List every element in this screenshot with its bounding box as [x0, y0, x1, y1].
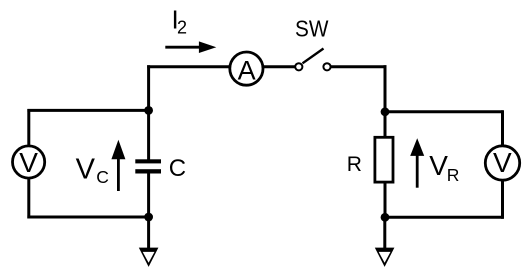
ammeter A: [230, 52, 263, 85]
wire: resistor bottom to junction: [384, 183, 387, 218]
svg-text:R: R: [447, 165, 460, 185]
svg-text:SW: SW: [295, 16, 329, 42]
voltage arrow VC: [111, 140, 125, 191]
node: junction dot left top: [144, 106, 153, 115]
svg-text:A: A: [238, 55, 256, 85]
node: junction dot left bottom: [144, 213, 153, 222]
wire: left loop left vertical lower: [27, 179, 30, 219]
wire: switch to right branch: [331, 65, 387, 68]
wire: capacitor bottom to junction: [147, 173, 150, 218]
capacitor C plates: [135, 159, 161, 173]
wire: right loop right vertical lower: [501, 180, 504, 219]
voltage arrow VR: [410, 138, 424, 188]
wire: left branch vertical to capacitor top: [147, 110, 150, 160]
label VC: [76, 154, 109, 188]
svg-text:C: C: [169, 155, 186, 182]
svg-text:2: 2: [177, 18, 187, 38]
svg-text:C: C: [96, 167, 109, 187]
wire: right junction to resistor top: [384, 112, 387, 137]
node: junction dot right bottom: [381, 213, 390, 222]
svg-text:R: R: [347, 153, 362, 176]
wire: ammeter to switch: [263, 65, 295, 68]
current arrow I2: [165, 41, 216, 53]
switch SW: [295, 49, 330, 71]
wire: left loop left vertical upper: [27, 109, 30, 146]
label I2: [172, 4, 188, 37]
label VR: [429, 150, 459, 185]
wire: left loop bottom horizontal: [27, 216, 148, 219]
wire: right loop top horizontal: [385, 110, 503, 113]
wire: top segment node1 to ammeter: [147, 65, 230, 68]
svg-text:V: V: [493, 147, 512, 178]
node: junction dot right top: [381, 107, 390, 116]
svg-text:V: V: [429, 150, 448, 181]
resistor R: [375, 137, 393, 182]
wire: left loop top horizontal: [27, 109, 148, 112]
wire: right loop right vertical upper: [501, 110, 504, 146]
ground left: [139, 248, 159, 267]
wire: left junction to ground: [147, 217, 150, 249]
voltmeter right V: [485, 146, 519, 180]
svg-text:V: V: [19, 147, 38, 178]
wire: left branch vertical upper: [147, 65, 150, 110]
wire: right junction to ground: [383, 217, 386, 249]
voltmeter left V: [13, 146, 45, 178]
ground right: [375, 248, 395, 267]
svg-text:V: V: [76, 154, 96, 186]
wire: right loop bottom horizontal: [385, 216, 503, 219]
wire: right branch vertical upper: [384, 65, 387, 112]
